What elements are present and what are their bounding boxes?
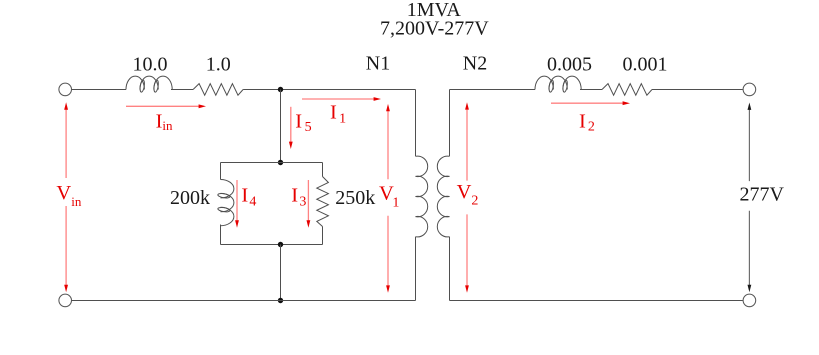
arrow 277V output voltage: [748, 103, 752, 293]
wire shunt tap upper: [280, 90, 282, 163]
svg-text:Vin: Vin: [56, 182, 81, 209]
arrow I5 current: [289, 107, 293, 149]
arrow V2 voltage: [465, 102, 469, 293]
transformer secondary winding N2: [437, 156, 449, 237]
terminal top-right: [743, 83, 756, 96]
svg-text:10.0: 10.0: [133, 53, 168, 75]
wire 200k bottom lead: [220, 225, 222, 245]
svg-text:V1: V1: [379, 183, 399, 211]
svg-text:I5: I5: [295, 111, 311, 135]
wire primary top lead: [415, 90, 417, 157]
wire top rail to transformer primary: [243, 89, 415, 91]
node top tap junction: [278, 87, 283, 92]
terminal bottom-right: [743, 294, 756, 307]
wire bottom-left rail: [72, 300, 416, 302]
arrow V1 voltage: [386, 104, 390, 293]
arrow I3 current: [307, 180, 311, 228]
node bottom rail junction: [278, 298, 283, 303]
resistor 0.001: [602, 84, 652, 96]
wire 250k bottom lead: [322, 227, 324, 245]
wire 250k top lead: [322, 163, 324, 177]
svg-text:277V: 277V: [740, 184, 785, 206]
svg-text:V2: V2: [457, 181, 479, 209]
arrow I1 current: [302, 97, 381, 101]
node shunt block bottom: [278, 242, 283, 247]
wire bottom-right rail: [450, 300, 743, 302]
terminal bottom-left: [59, 294, 72, 307]
title transformer rating label: [380, 0, 489, 40]
arrow Vin voltage: [64, 102, 68, 292]
transformer primary winding N1: [416, 156, 428, 237]
wire shunt tap lower: [280, 245, 282, 301]
wire top-left rail: [72, 89, 126, 91]
wire shunt block bottom side: [221, 244, 323, 246]
resistor 250k: [317, 177, 329, 227]
arrow Iin current: [126, 104, 206, 108]
svg-text:0.001: 0.001: [623, 53, 668, 75]
svg-text:Iin: Iin: [156, 110, 173, 133]
svg-text:I2: I2: [579, 111, 595, 135]
svg-text:I3: I3: [291, 185, 306, 210]
wire secondary bottom lead: [449, 237, 451, 301]
wire primary bottom lead: [415, 237, 417, 301]
svg-text:I1: I1: [330, 102, 346, 127]
wire 200k top lead: [220, 163, 222, 180]
wire secondary top lead: [449, 90, 451, 157]
node shunt block top: [278, 160, 283, 165]
wire secondary top rail: [450, 89, 536, 91]
terminal top-left: [59, 83, 72, 96]
arrow I4 current: [235, 180, 239, 228]
svg-text:0.005: 0.005: [547, 53, 592, 75]
wire between 10.0 and 1.0: [171, 89, 193, 91]
inductor 10.0: [126, 76, 172, 92]
svg-text:200k: 200k: [170, 187, 210, 209]
arrow I2 current: [551, 101, 630, 105]
svg-text:N2: N2: [463, 53, 487, 75]
svg-text:1.0: 1.0: [206, 53, 231, 75]
resistor 1.0: [193, 84, 243, 96]
svg-text:N1: N1: [366, 53, 390, 75]
svg-text:I4: I4: [241, 185, 256, 210]
wire between 0.005 and 0.001: [580, 89, 602, 91]
svg-text:250k: 250k: [335, 187, 375, 209]
inductor 200k: [218, 180, 234, 226]
svg-text:7,200V-277V: 7,200V-277V: [380, 18, 489, 40]
inductor 0.005: [535, 76, 581, 92]
wire secondary rail to terminal: [652, 89, 743, 91]
wire shunt block top side: [221, 162, 323, 164]
